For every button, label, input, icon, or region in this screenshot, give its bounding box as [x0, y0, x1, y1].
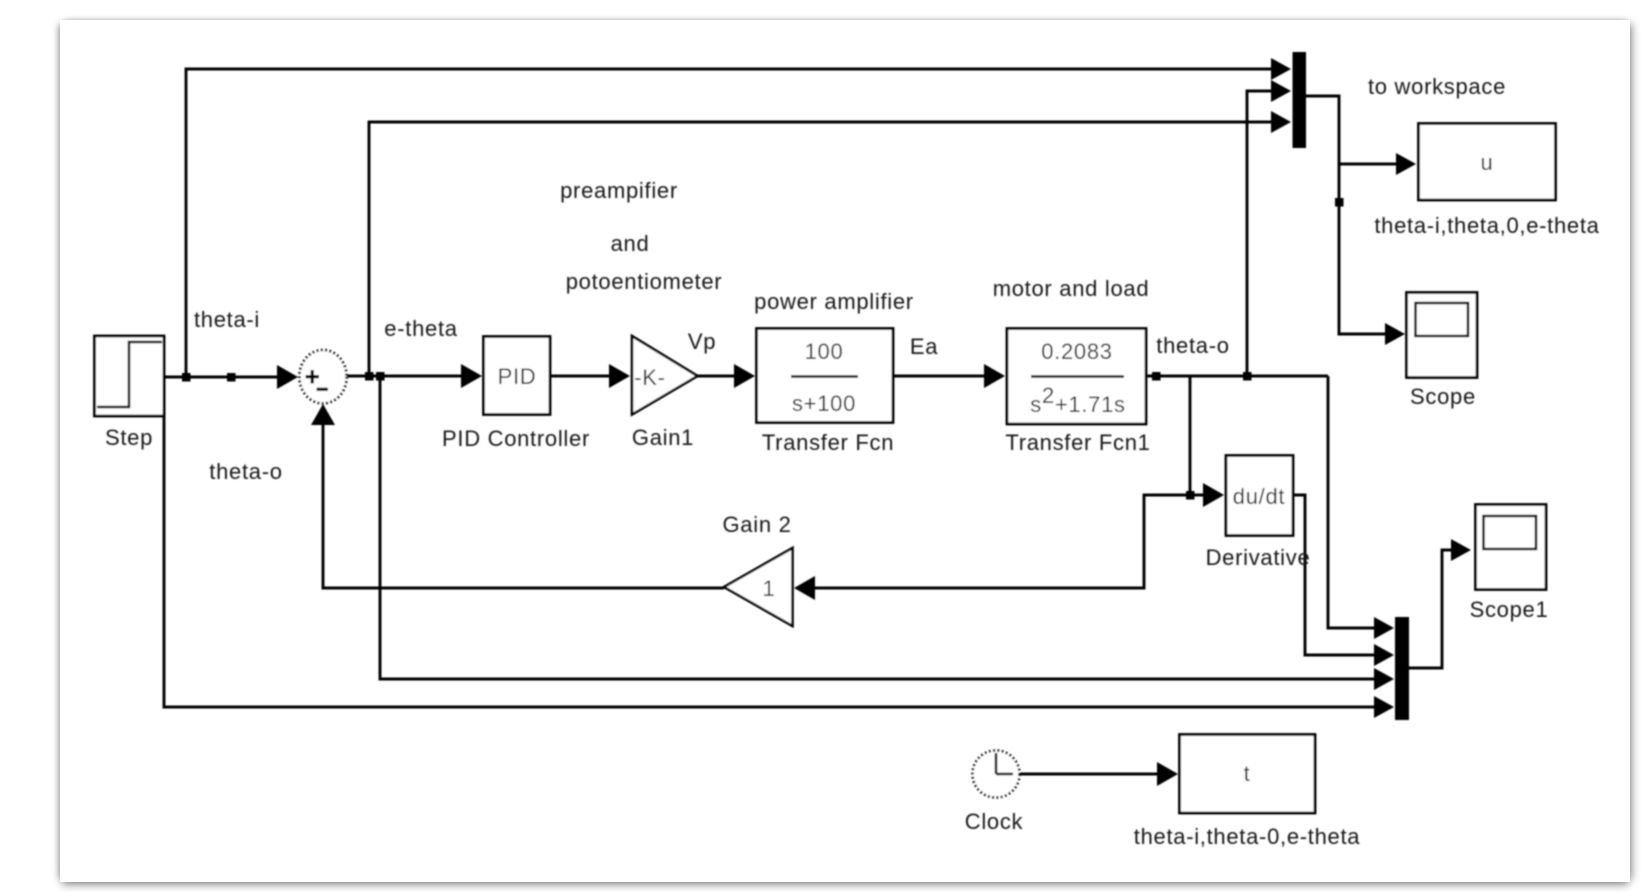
arrowhead mux input 2	[1271, 80, 1291, 102]
svg-text:theta-i: theta-i	[194, 307, 260, 332]
arrowhead mux2 input 3	[1374, 668, 1394, 690]
arrowhead into sum bottom (up)	[311, 404, 335, 425]
junction dot e-theta down	[376, 372, 385, 381]
wire Derivative output to mux2 input 2	[1293, 495, 1378, 655]
arrowhead into t block	[1157, 762, 1178, 786]
wire PID to Gain1	[550, 375, 615, 378]
arrowhead into Transfer Fcn	[734, 364, 755, 388]
wire Transfer Fcn to Transfer Fcn1 (Ea)	[893, 375, 990, 378]
wire Clock to t block	[1020, 773, 1165, 776]
fraction bar Transfer Fcn1	[1031, 375, 1124, 378]
clock hands	[996, 753, 1013, 774]
svg-text:Step: Step	[105, 425, 153, 450]
wire Gain 2 output up to sum	[323, 425, 724, 588]
arrowhead mux2 input 2	[1374, 644, 1394, 666]
svg-text:theta-i,theta-0,e-theta: theta-i,theta-0,e-theta	[1134, 824, 1361, 849]
block Step	[95, 336, 165, 416]
svg-text:Derivative: Derivative	[1206, 545, 1311, 570]
block To Workspace t	[1180, 735, 1316, 814]
mux2 bar bottom	[1395, 617, 1409, 720]
mux bar top	[1293, 52, 1307, 148]
svg-text:Vp: Vp	[688, 329, 716, 354]
svg-text:to workspace: to workspace	[1368, 74, 1506, 99]
svg-text:t: t	[1244, 761, 1251, 786]
wire step output	[164, 376, 282, 379]
svg-text:Scope1: Scope1	[1470, 597, 1549, 622]
svg-text:Scope: Scope	[1410, 384, 1476, 409]
Scope1 screen	[1484, 516, 1537, 549]
svg-text:e-theta: e-theta	[384, 316, 457, 341]
svg-text:u: u	[1481, 150, 1494, 175]
svg-text:Transfer Fcn: Transfer Fcn	[762, 430, 894, 455]
wire e-theta up to mux	[369, 122, 1276, 376]
svg-text:Clock: Clock	[965, 809, 1024, 834]
block PID Controller	[484, 337, 551, 415]
fraction bar Transfer Fcn	[791, 375, 858, 378]
svg-text:Gain1: Gain1	[632, 425, 694, 450]
arrowhead mux2 input 4	[1374, 696, 1394, 718]
wire sum output to PID	[347, 375, 467, 378]
wire theta-o drop to Derivative	[1190, 376, 1210, 495]
svg-text:Ea: Ea	[910, 334, 938, 359]
junction dot theta-o out	[1152, 372, 1161, 381]
svg-text:and: and	[611, 231, 650, 256]
block Transfer Fcn1	[1007, 329, 1146, 425]
junction dot step 2	[227, 373, 236, 382]
arrowhead into Transfer Fcn1	[984, 364, 1005, 388]
svg-text:potoentiometer: potoentiometer	[566, 269, 723, 294]
svg-text:0.2083: 0.2083	[1041, 339, 1113, 364]
svg-text:1: 1	[763, 576, 776, 601]
svg-text:s+100: s+100	[792, 391, 856, 416]
arrowhead into Gain1	[609, 364, 630, 388]
block Scope1	[1476, 505, 1547, 590]
block Transfer Fcn	[757, 329, 894, 423]
svg-text:PID: PID	[498, 364, 537, 389]
svg-text:du/dt: du/dt	[1233, 484, 1285, 509]
svg-text:theta-o: theta-o	[1156, 333, 1229, 358]
wire e-theta down to mux2	[380, 376, 1378, 679]
svg-text:PID Controller: PID Controller	[442, 426, 590, 451]
junction dot mux trunk	[1335, 198, 1344, 207]
arrowhead into u block	[1396, 153, 1416, 175]
Scope screen	[1416, 303, 1469, 336]
svg-text:theta-o: theta-o	[209, 459, 282, 484]
svg-text:motor and load: motor and load	[993, 276, 1150, 301]
wire Gain1 to Transfer Fcn	[697, 375, 740, 378]
sum plus sign	[306, 370, 320, 384]
block To Workspace u	[1419, 124, 1556, 201]
junction dot theta-o riser	[1243, 372, 1252, 381]
svg-text:theta-i,theta,0,e-theta: theta-i,theta,0,e-theta	[1374, 213, 1599, 238]
arrowhead mux2 input 1	[1374, 617, 1394, 639]
wire feedback to Gain 2	[812, 495, 1190, 588]
arrowhead into Gain 2 (left)	[794, 576, 815, 600]
step icon	[97, 342, 162, 407]
wire mux output trunk	[1306, 96, 1390, 334]
svg-text:preampifier: preampifier	[560, 178, 678, 203]
gain triangle Gain 2 (left)	[724, 548, 793, 626]
wire theta-o right riser to mux2 input 1	[1328, 376, 1378, 628]
svg-text:100: 100	[805, 339, 844, 364]
svg-text:Transfer Fcn1: Transfer Fcn1	[1005, 430, 1150, 455]
arrowhead mux input 3	[1271, 111, 1291, 133]
wire mux2 output to Scope1	[1409, 550, 1457, 668]
wire theta-i up to mux	[186, 69, 1276, 377]
arrowhead into Scope1	[1451, 539, 1471, 561]
clock circle	[973, 751, 1020, 798]
arrowhead into PID	[461, 364, 482, 388]
arrowhead into Scope	[1385, 323, 1405, 345]
svg-text:-K-: -K-	[634, 365, 665, 390]
wire theta-o riser up to mux input 2	[1247, 91, 1276, 376]
block Scope	[1407, 293, 1478, 378]
junction dot derivative input	[1186, 491, 1195, 500]
sum junction circle	[299, 350, 346, 403]
junction dot step 1	[182, 373, 191, 382]
sum minus sign	[317, 388, 329, 391]
svg-text:power amplifier: power amplifier	[754, 289, 914, 314]
wire theta-o horizontal	[1146, 375, 1328, 378]
block Derivative du/dt	[1226, 456, 1293, 536]
arrowhead into Derivative	[1203, 483, 1224, 507]
gain triangle Gain1	[632, 336, 698, 415]
arrowhead into sum	[277, 365, 298, 389]
arrowhead mux input 1	[1271, 58, 1291, 80]
wire branch to u block	[1339, 163, 1402, 166]
svg-text:Gain 2: Gain 2	[722, 512, 791, 537]
junction dot e-theta up	[365, 372, 374, 381]
wire theta-i down to mux2	[164, 377, 1378, 707]
